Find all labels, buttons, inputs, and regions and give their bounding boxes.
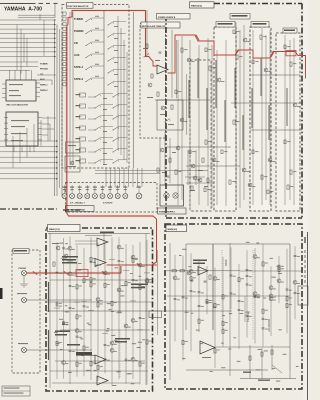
strip label 2 — [251, 22, 269, 28]
bottom right corner wires — [249, 345, 251, 379]
right box mid wire2 — [240, 270, 302, 272]
red trace tone stage — [168, 35, 235, 73]
svg-text:PHONO: PHONO — [19, 268, 27, 270]
wires box1 to bus — [37, 74, 56, 76]
wire under title — [18, 14, 55, 16]
svg-text:TUNER: TUNER — [40, 63, 48, 65]
cross wires above power strip — [95, 170, 208, 172]
svg-text:LOUDNESS: LOUDNESS — [268, 318, 271, 332]
opamp IC2a — [95, 355, 106, 364]
IC input selector box — [6, 112, 38, 146]
tone components — [146, 44, 148, 48]
label MAIN 1/2 — [166, 225, 187, 232]
right box wire B — [166, 146, 231, 148]
left box wire r4 — [46, 301, 152, 303]
tone vertical wires — [171, 30, 173, 98]
speaker terminal circles — [62, 194, 67, 199]
phono jack top — [22, 271, 27, 276]
dotted slider 2 — [221, 250, 223, 330]
right margin dashes — [304, 237, 306, 243]
main 1/3 box border — [46, 228, 153, 391]
vertical text labels — [188, 80, 190, 118]
tone inner parts — [161, 106, 165, 110]
vertical label bar 1 — [48, 282, 50, 312]
label MAIN 1/3 — [48, 225, 81, 232]
red bleed glow top — [72, 9, 145, 11]
left box vert 4 — [119, 266, 121, 311]
left box vert 2 — [145, 233, 147, 385]
opamp IC1b — [95, 259, 106, 267]
red trace main line — [107, 264, 157, 266]
left box value labels — [87, 322, 90, 325]
svg-text:BASS: BASS — [225, 259, 228, 266]
staircase verticals — [12, 136, 14, 168]
red resistor box — [76, 270, 88, 277]
strip label 3 — [283, 28, 297, 33]
right box vert a — [169, 243, 171, 380]
red trace switch jog — [149, 57, 157, 66]
svg-text:TUNER: TUNER — [74, 17, 83, 21]
red resistor on line — [286, 51, 296, 56]
main 2/3 box bottom border — [166, 217, 302, 219]
right box low wire2 — [186, 369, 268, 371]
right box wire E — [250, 129, 302, 131]
svg-text:YAMAHA A-700: YAMAHA A-700 — [4, 7, 42, 13]
left box vert 3 — [103, 233, 105, 260]
power source dashed box — [66, 183, 158, 213]
svg-text:MUTING A.SW TONE CNT: MUTING A.SW TONE CNT — [142, 25, 166, 28]
main 2/3 box left border — [165, 15, 167, 218]
phono mid wire — [27, 299, 93, 301]
right box components — [181, 48, 183, 52]
tone control dashed box — [140, 24, 166, 139]
input selector pins — [38, 117, 42, 119]
paper right margin strip — [303, 0, 309, 400]
left box component columns — [56, 242, 58, 379]
left box wire r3 — [50, 279, 150, 281]
right box lower extra — [186, 182, 230, 184]
svg-text:FUNCTION SELECTOR: FUNCTION SELECTOR — [67, 6, 89, 8]
pb amp label — [131, 284, 148, 286]
red bleed glow main — [27, 272, 120, 274]
left box wire r6 — [55, 360, 145, 362]
red trace phono line — [27, 267, 122, 274]
right box wire A — [155, 99, 214, 101]
tone lower parts — [160, 148, 164, 152]
red trace right section — [235, 50, 306, 78]
vertical label bar 2 — [48, 330, 50, 360]
label power source B — [157, 14, 191, 20]
svg-text:TAPE-2: TAPE-2 — [74, 77, 84, 81]
pilot lamp R — [173, 193, 178, 198]
right box wire C — [186, 165, 240, 167]
right box inner wires — [177, 40, 179, 205]
resistor ladder array — [63, 12, 66, 15]
input wire fan lower — [0, 140, 56, 142]
label MAIN 2/3 — [190, 2, 215, 8]
rec out selector pins — [36, 82, 40, 84]
fan junction verticals — [16, 25, 18, 71]
svg-text:S.P-RIGHT: S.P-RIGHT — [103, 203, 113, 205]
wires to terminal strip — [105, 168, 107, 187]
bridge component box — [149, 311, 162, 318]
svg-text:MAIN [2/3]: MAIN [2/3] — [191, 5, 202, 8]
left box wire r2 — [46, 310, 152, 312]
label FUNCTION SELECTOR — [67, 3, 94, 9]
left box wire r8 — [52, 382, 140, 384]
sub-board dashed strip 3 — [250, 27, 271, 211]
main 2/3 box top-left stub — [166, 17, 190, 19]
svg-text:POWER SOURCE B: POWER SOURCE B — [158, 17, 176, 19]
tone lower wires — [159, 138, 161, 185]
page edge vertical line — [307, 232, 309, 400]
svg-text:PHONO: PHONO — [74, 29, 84, 33]
mc head amp — [56, 246, 60, 250]
svg-text:TAPE-1: TAPE-1 — [74, 65, 84, 69]
svg-text:MAIN [1/3]: MAIN [1/3] — [49, 228, 60, 231]
right main value labels — [222, 314, 225, 317]
flat sub amp label — [193, 260, 207, 262]
relay box A — [66, 142, 81, 153]
opamp IC201a — [198, 267, 208, 276]
label power supply — [158, 208, 187, 214]
left box wire r5 — [60, 329, 150, 331]
red trace bottom rail — [67, 213, 157, 265]
main 2/3 box top border — [190, 3, 302, 5]
relay box B — [65, 156, 80, 172]
right box vert c — [289, 244, 291, 370]
svg-text:TAPE-1: TAPE-1 — [40, 84, 48, 87]
sub-board dashed strip 4 — [276, 33, 300, 211]
red trace function selector left — [67, 11, 149, 214]
svg-text:MAIN[1/2]: MAIN[1/2] — [168, 228, 178, 231]
right box vert b — [229, 243, 231, 376]
left edge mark — [0, 288, 3, 299]
svg-text:TREBLE: TREBLE — [247, 312, 250, 322]
function selector dashed box — [62, 5, 129, 169]
IC rec out selector box — [6, 80, 36, 101]
opamp IC1a — [97, 238, 108, 246]
power transistor circuit — [191, 164, 195, 168]
svg-text:TAPE-2: TAPE-2 — [40, 89, 48, 92]
left box wire r7 — [50, 370, 148, 372]
top rule line — [0, 2, 36, 4]
page divider dash — [0, 208, 57, 210]
svg-text:AUX: AUX — [74, 53, 80, 57]
bus wires into selector — [54, 20, 56, 196]
dotted slider 1 — [252, 250, 254, 340]
sub-board dashed strip 2 — [214, 27, 236, 211]
record switch matrix — [80, 93, 86, 97]
right box low wire — [152, 310, 232, 312]
function box spine wires — [69, 12, 71, 165]
right box long wire — [215, 346, 290, 348]
tone opamp U3 — [157, 65, 168, 74]
right box top wire — [186, 243, 290, 245]
svg-text:S.P + SW(3A)L.T: S.P + SW(3A)L.T — [70, 202, 86, 205]
label phono box — [13, 249, 29, 254]
label tone box — [141, 22, 180, 28]
right box mid wire — [166, 270, 240, 272]
dotted wire left box — [119, 330, 121, 378]
main 2/3 box right border — [301, 4, 303, 219]
svg-text:POWER SUPPLY: POWER SUPPLY — [159, 212, 176, 214]
sub-board dashed strip 1 — [190, 60, 211, 211]
left box top wire — [48, 233, 150, 235]
strip label 0 — [230, 14, 250, 20]
tone inner box — [157, 100, 183, 130]
phono jack dashed box — [12, 250, 40, 373]
svg-text:AUX: AUX — [40, 78, 45, 81]
opamp IC201b — [200, 341, 215, 354]
input wire fan upper — [0, 19, 54, 21]
right main component columns — [174, 255, 176, 341]
svg-text:REC OUT SELECTOR: REC OUT SELECTOR — [7, 105, 29, 107]
bridge wire — [157, 250, 159, 335]
svg-text:CD: CD — [74, 41, 78, 45]
muting switch — [144, 57, 145, 58]
opamp IC2b — [97, 376, 108, 385]
left box vert 1 — [49, 233, 51, 388]
pilot lamp box — [160, 185, 184, 206]
red bleed glow bottom — [68, 215, 154, 218]
red switch ticks — [196, 35, 199, 40]
main 1/2 box border — [165, 224, 302, 389]
strip label 1 — [216, 22, 235, 28]
right box wire D — [250, 74, 300, 76]
phono jack bottom — [22, 348, 27, 353]
label POWER SOURCE — [66, 206, 95, 212]
svg-text:PHONO: PHONO — [40, 69, 48, 71]
revision stamp box — [2, 386, 30, 396]
power resistor dark — [76, 352, 92, 356]
phono jack mid — [22, 298, 27, 303]
red component jog — [33, 272, 37, 275]
left box wire r1 — [27, 349, 93, 351]
phono ground stub — [23, 276, 25, 284]
red bleed glow left — [66, 28, 69, 213]
pilot lamp L — [164, 193, 169, 198]
